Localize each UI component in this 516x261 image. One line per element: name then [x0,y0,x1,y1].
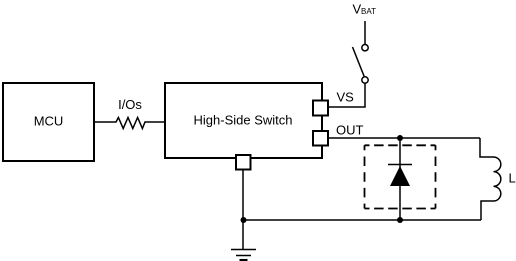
svg-text:I/Os: I/Os [118,97,142,112]
svg-text:VS: VS [337,89,355,104]
svg-text:L: L [509,171,516,186]
svg-text:BAT: BAT [361,7,376,16]
svg-text:High-Side Switch: High-Side Switch [194,112,293,127]
svg-text:MCU: MCU [34,114,64,129]
svg-text:OUT: OUT [336,122,364,137]
